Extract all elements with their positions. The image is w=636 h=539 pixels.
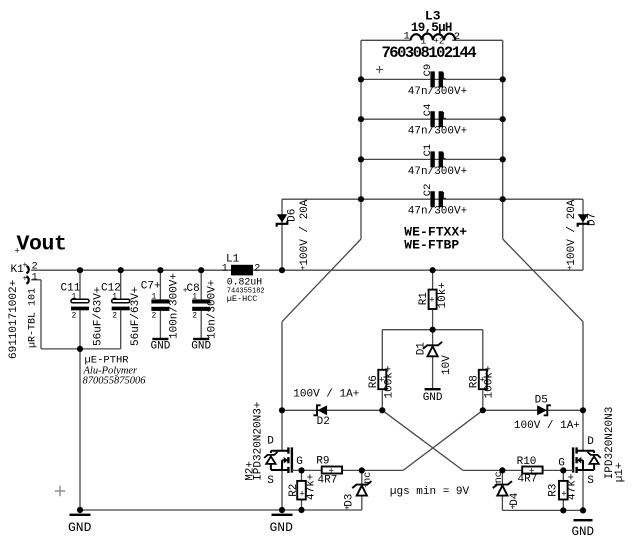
svg-text:100V / 20A: 100V / 20A <box>299 199 311 265</box>
svg-text:+: + <box>480 376 485 386</box>
junction cap row right <box>500 116 506 122</box>
junction R1 bottom <box>430 327 436 333</box>
svg-text:C2: C2 <box>422 184 434 197</box>
svg-text:1: 1 <box>440 112 446 123</box>
svg-text:+: + <box>329 466 334 476</box>
svg-text:19,5µH: 19,5µH <box>411 21 452 35</box>
wire K1 pin1 <box>31 279 41 281</box>
svg-text:1: 1 <box>440 192 446 203</box>
svg-text:100V / 20A: 100V / 20A <box>566 199 578 265</box>
svg-text:47n/300V+: 47n/300V+ <box>408 206 467 218</box>
wire R6 leads <box>381 330 383 370</box>
connector K1 pin 2 <box>26 266 28 273</box>
svg-text:R2: R2 <box>288 484 300 497</box>
svg-text:1: 1 <box>72 292 77 301</box>
svg-text:GND: GND <box>68 520 92 535</box>
resistor R1 <box>429 290 437 309</box>
svg-text:100V / 1A+: 100V / 1A+ <box>293 389 359 401</box>
svg-text:+: + <box>15 247 20 257</box>
svg-text:GND: GND <box>423 392 443 404</box>
capacitor C7 <box>151 299 169 303</box>
svg-text:D7: D7 <box>587 213 599 226</box>
svg-text:10n/300V+: 10n/300V+ <box>207 280 219 339</box>
origin mark bottom-left <box>55 490 65 492</box>
wire cap row 3 <box>361 158 503 160</box>
svg-text:1: 1 <box>222 263 228 274</box>
svg-text:100n/300V+: 100n/300V+ <box>169 273 181 339</box>
svg-text:100k+: 100k+ <box>383 365 395 398</box>
svg-text:56uF/63V+: 56uF/63V+ <box>130 287 142 346</box>
svg-text:2: 2 <box>254 263 260 274</box>
svg-text:D: D <box>267 436 274 448</box>
wire D3 leads <box>361 470 363 484</box>
junction on Vout rail <box>279 267 285 273</box>
inductor L3 coil <box>411 34 456 41</box>
ground D1 <box>425 388 441 390</box>
wire R2 leads <box>301 470 303 480</box>
svg-text:2: 2 <box>112 312 117 321</box>
junction right column D5 <box>580 407 586 413</box>
svg-text:C4: C4 <box>422 104 434 117</box>
diode D6 <box>277 214 288 222</box>
svg-text:R3: R3 <box>548 484 560 497</box>
wire C12 bottom <box>120 310 122 349</box>
svg-text:2: 2 <box>192 312 197 321</box>
svg-text:D: D <box>587 436 594 448</box>
junction R3 bottom <box>560 507 566 513</box>
junction R2 bottom <box>298 507 304 513</box>
svg-text:69110171002+: 69110171002+ <box>8 280 20 359</box>
ground M2 source <box>272 514 293 516</box>
wire left diagonal <box>282 239 361 322</box>
junction on Vout rail <box>118 267 124 273</box>
wire D2 row <box>282 409 382 411</box>
svg-text:µ1+: µ1+ <box>614 462 626 482</box>
ground M1 source <box>574 519 593 521</box>
resistor R8 <box>479 370 487 389</box>
wire right column <box>582 322 584 411</box>
svg-text:47n/300V+: 47n/300V+ <box>408 86 467 98</box>
junction R6 bottom <box>379 407 385 413</box>
svg-text:1: 1 <box>440 152 446 163</box>
junction cap row left <box>358 116 364 122</box>
junction cap row left <box>358 156 364 162</box>
wire right-gate to left-node diagonal <box>382 410 463 470</box>
svg-text:G: G <box>296 456 303 468</box>
svg-text:+: + <box>300 265 305 274</box>
svg-text:1: 1 <box>32 272 38 283</box>
capacitor C11 (polarized) <box>71 299 89 303</box>
svg-text:IPD320N20N3+: IPD320N20N3+ <box>253 402 265 481</box>
inductor L1 body <box>231 265 253 276</box>
wire L3 top right <box>452 39 503 41</box>
capacitor C9 <box>430 71 434 87</box>
svg-text:GND: GND <box>572 525 595 539</box>
junction M2 gate <box>298 467 304 473</box>
resistor R10 <box>522 467 542 474</box>
svg-text:S: S <box>267 475 274 487</box>
junction cap row right <box>500 196 506 202</box>
transistor M2 (IPD320N20N3) <box>271 450 289 452</box>
wire M2 source <box>281 470 283 510</box>
svg-text:+: + <box>529 466 534 476</box>
junction cap row right <box>500 76 506 82</box>
svg-text:+: + <box>23 275 28 284</box>
wire L3 top left <box>361 39 411 41</box>
wire C12 top <box>120 270 122 300</box>
junction M1 gate <box>560 467 566 473</box>
wire right ground rail <box>502 509 583 511</box>
wire D7 branch <box>582 199 584 270</box>
svg-text:+: + <box>429 296 434 306</box>
svg-text:µgs min = 9V: µgs min = 9V <box>390 486 470 498</box>
wire R1 leads <box>432 270 434 289</box>
junction cap row left <box>358 76 364 82</box>
svg-text:D5: D5 <box>535 395 548 407</box>
svg-text:+: + <box>23 261 28 270</box>
junction left column D2 <box>279 407 285 413</box>
wire C11-C12 bottom rail <box>41 348 121 350</box>
svg-text:+: + <box>183 286 188 295</box>
zener diode D1 <box>428 346 438 356</box>
wire D6 branch <box>281 199 283 270</box>
resistor R3 <box>559 481 568 500</box>
wire ground rail <box>80 509 362 511</box>
resistor R2 <box>297 481 306 500</box>
ground C8 <box>193 338 209 340</box>
svg-text:GND: GND <box>151 340 171 352</box>
svg-text:L1: L1 <box>226 253 240 265</box>
junction D4 top <box>499 467 505 473</box>
svg-text:2: 2 <box>72 312 77 321</box>
svg-text:GND: GND <box>270 520 294 535</box>
wire M2 drain <box>281 410 283 450</box>
svg-text:WE-FTBP: WE-FTBP <box>404 237 459 252</box>
svg-text:47k+: 47k+ <box>566 474 578 500</box>
svg-text:100V / 1A+: 100V / 1A+ <box>514 420 580 432</box>
wire D5 row <box>483 409 583 411</box>
ground C7 <box>152 338 168 340</box>
svg-text:760308102144: 760308102144 <box>382 44 477 62</box>
svg-text:R1: R1 <box>418 292 430 306</box>
wire R8 leads <box>482 330 484 370</box>
svg-text:G: G <box>558 457 565 469</box>
capacitor C12 (polarized) <box>112 299 130 303</box>
capacitor C1 <box>430 151 434 167</box>
svg-text:100k+: 100k+ <box>484 365 496 398</box>
svg-text:1: 1 <box>404 30 410 42</box>
svg-text:C7+: C7+ <box>141 280 161 292</box>
svg-text:1: 1 <box>440 72 446 83</box>
svg-text:47k+: 47k+ <box>306 474 318 500</box>
wire M1 drain <box>582 410 584 450</box>
junction C11 bottom <box>77 346 83 352</box>
svg-text:2: 2 <box>454 31 460 43</box>
svg-text:870055875006: 870055875006 <box>83 376 147 387</box>
wire D4 leads <box>501 470 503 484</box>
svg-text:+: + <box>510 504 515 513</box>
svg-text:D6: D6 <box>287 209 299 222</box>
wire R3 leads <box>562 470 564 480</box>
origin mark cap bank <box>376 69 383 71</box>
wire right diagonal <box>503 239 583 322</box>
svg-text:1: 1 <box>112 292 117 301</box>
junction M2 source gnd <box>279 507 285 513</box>
connector K1 pin 1 <box>26 276 28 283</box>
wire cap row 1 <box>361 78 503 80</box>
svg-text:1: 1 <box>152 292 157 301</box>
svg-text:47n/300V+: 47n/300V+ <box>408 166 467 178</box>
transistor M1 (IPD320N20N3) <box>577 450 595 452</box>
zener diode D4 <box>497 486 507 496</box>
ground left <box>70 514 91 516</box>
svg-text:1: 1 <box>192 292 197 301</box>
svg-text:µR-TBL 101: µR-TBL 101 <box>28 288 39 348</box>
svg-text:+: + <box>299 489 304 499</box>
svg-text:µE-HCC: µE-HCC <box>227 294 258 304</box>
svg-text:+: + <box>379 376 384 386</box>
junction M1 source gnd <box>580 507 586 513</box>
wire C11 top <box>79 270 81 300</box>
svg-text:56uF/63V+: 56uF/63V+ <box>93 287 105 346</box>
wire R6-R8 top rail <box>382 329 483 331</box>
svg-text:47n/300V+: 47n/300V+ <box>408 126 467 138</box>
svg-text:+: + <box>494 481 499 490</box>
wire right gate segment <box>463 469 574 471</box>
wire Vout rail <box>31 269 583 271</box>
junction on Vout rail <box>430 267 436 273</box>
wire cap bank right rail <box>502 40 504 239</box>
capacitor C2 <box>430 191 434 207</box>
svg-text:D2: D2 <box>317 416 330 428</box>
junction ground left <box>77 507 83 513</box>
wire left gate segment <box>292 469 403 471</box>
svg-text:2: 2 <box>32 261 38 272</box>
capacitor C4 <box>430 111 434 127</box>
wire cap row 4 / switch-node link <box>282 198 583 200</box>
svg-text:2: 2 <box>152 312 157 321</box>
diode D2 <box>317 405 327 415</box>
junction on Vout rail <box>157 267 163 273</box>
svg-text:+: + <box>363 482 368 491</box>
svg-text:C1: C1 <box>422 144 434 157</box>
resistor R9 <box>322 467 342 474</box>
junction R8 bottom <box>480 407 486 413</box>
svg-text:GND: GND <box>191 340 211 352</box>
wire cap bank left rail <box>360 40 362 239</box>
svg-text:4R7: 4R7 <box>318 475 338 487</box>
wire cap row 2 <box>361 118 503 120</box>
svg-text:0.82uH: 0.82uH <box>227 276 262 287</box>
svg-text:+: + <box>345 505 350 514</box>
junction cap row right <box>500 156 506 162</box>
svg-text:C9: C9 <box>422 64 434 77</box>
junction D3 top <box>359 467 365 473</box>
svg-text:S: S <box>587 475 594 487</box>
svg-text:10V: 10V <box>441 355 453 375</box>
wire D1 leads <box>432 330 434 346</box>
wire C7 leads <box>159 270 161 300</box>
diode D5 <box>537 405 547 415</box>
wire ground drop <box>79 349 81 510</box>
wire left-gate to right-node diagonal <box>403 410 483 470</box>
capacitor C8 <box>192 299 210 303</box>
svg-text:10k+: 10k+ <box>437 282 449 308</box>
zener diode D3 <box>357 486 367 496</box>
resistor R6 <box>378 370 386 389</box>
diode D7 <box>578 214 589 222</box>
wire M1 source <box>582 470 584 510</box>
wire C8 leads <box>200 270 202 300</box>
svg-text:D1: D1 <box>416 342 428 356</box>
svg-text:+: + <box>567 265 572 274</box>
wire left column <box>281 322 283 411</box>
svg-text:Vout: Vout <box>17 233 67 257</box>
junction on Vout rail <box>77 267 83 273</box>
wire C11 bottom <box>79 310 81 349</box>
junction on Vout rail <box>198 267 204 273</box>
junction cap row left <box>358 196 364 202</box>
